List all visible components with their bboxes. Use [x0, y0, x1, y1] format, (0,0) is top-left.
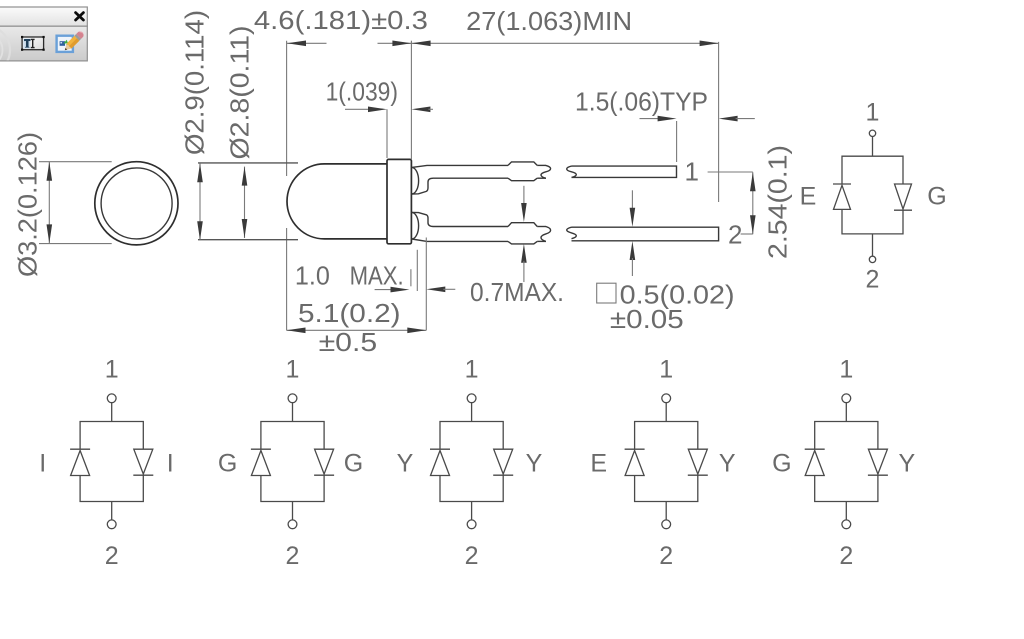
svg-text:1: 1 — [105, 356, 119, 384]
dimension Ø3.2 extension line bottom — [39, 243, 112, 245]
svg-text:1: 1 — [866, 99, 880, 127]
value label 2.54(0.1) — [763, 145, 793, 259]
bi-color LED symbol U5 body box — [635, 422, 698, 502]
extension line lead bend (vertical) — [416, 250, 418, 291]
U3 right diode (G) cathode-down — [314, 449, 334, 475]
U3 pin 2 number label — [286, 542, 300, 570]
U1 colour label G (right) — [927, 183, 946, 211]
U5 pin 1 number label — [659, 356, 673, 384]
svg-text:2: 2 — [659, 542, 673, 570]
U2 pin 2 terminal circle and wire — [107, 502, 116, 529]
U5 colour label E (left) — [590, 450, 607, 478]
dimension Ø3.2 extension line top — [39, 161, 112, 163]
value label 4.6(.181)±0.3 — [254, 5, 428, 35]
U1 pin 2 terminal circle and wire — [869, 234, 875, 263]
svg-text:2: 2 — [286, 542, 300, 570]
U5 left diode (E) anode-up — [625, 449, 645, 475]
dimension 1.5 TYP arrows — [640, 116, 755, 122]
U1 colour label E (left) — [800, 183, 817, 211]
bi-color LED symbol U4 body box — [440, 422, 503, 502]
svg-text:2: 2 — [465, 542, 479, 570]
svg-text:Y: Y — [899, 450, 916, 478]
svg-text:Ø2.9(0.114): Ø2.9(0.114) — [180, 10, 210, 155]
svg-text:27(1.063)MIN: 27(1.063)MIN — [466, 6, 632, 36]
svg-text:±0.5: ±0.5 — [319, 327, 378, 357]
dimension 0.5 square lead arrows — [630, 190, 636, 276]
svg-text:I: I — [39, 450, 46, 478]
value label Ø2.9(0.114) — [180, 10, 210, 155]
U1 right diode (G) cathode-down — [894, 184, 912, 210]
wire lead1 near package top edge — [412, 165, 508, 167]
dimension 4.6 arrow line — [287, 41, 411, 47]
U6 pin 1 number label — [839, 356, 853, 384]
extension line lead2 end (vertical) — [718, 42, 720, 202]
value label Ø3.2(0.126) — [13, 132, 43, 277]
svg-text:G: G — [772, 450, 791, 478]
svg-text:G: G — [927, 183, 946, 211]
LED front view outer circle (package barrel Ø3.2) — [95, 162, 178, 245]
lead seat bump pin2 — [412, 212, 419, 239]
value label ±0.5 — [319, 327, 378, 357]
svg-text:1: 1 — [839, 356, 853, 384]
dimension 1(.039) arrows — [345, 107, 433, 113]
U4 right diode (Y) cathode-down — [493, 449, 513, 475]
U6 right diode (Y) cathode-down — [868, 449, 888, 475]
extension line lead1 end (vertical) — [676, 121, 678, 162]
U5 colour label Y (right) — [719, 450, 736, 478]
U2 pin 1 number label — [105, 356, 119, 384]
U2 pin 1 terminal circle and wire — [107, 394, 116, 422]
dimension 27 arrow line — [412, 41, 719, 47]
value label 1(.039) — [326, 76, 398, 106]
bi-color LED symbol U3 body box — [261, 422, 324, 502]
U2 colour label I (right) — [167, 450, 174, 478]
svg-text:2: 2 — [839, 542, 853, 570]
U6 colour label G (left) — [772, 450, 791, 478]
U3 pin 2 terminal circle and wire — [288, 502, 297, 529]
svg-text:1.5(.06)TYP: 1.5(.06)TYP — [575, 87, 708, 117]
U5 pin 1 terminal circle and wire — [662, 394, 671, 422]
value label Ø2.8(0.11) — [225, 26, 255, 160]
svg-text:1: 1 — [659, 356, 673, 384]
svg-text:1: 1 — [465, 356, 479, 384]
U1 left diode (E) anode-up — [833, 184, 851, 209]
lead seat bump pin1 — [412, 167, 419, 194]
U2 left diode (I) anode-up — [70, 449, 90, 475]
U2 pin 2 number label — [105, 542, 119, 570]
node pin 2 label — [728, 220, 742, 250]
value label 5.1(0.2) — [298, 298, 401, 328]
U6 pin 2 terminal circle and wire — [842, 502, 851, 529]
U5 right diode (Y) cathode-down — [688, 449, 708, 475]
U6 left diode (G) anode-up — [805, 449, 825, 475]
U6 pin 1 terminal circle and wire — [842, 394, 851, 422]
svg-text:1: 1 — [286, 356, 300, 384]
svg-text:1(.039): 1(.039) — [326, 76, 398, 106]
lead2 crimp — [508, 223, 537, 244]
svg-text:E: E — [800, 183, 817, 211]
svg-text:0.7MAX.: 0.7MAX. — [470, 277, 564, 307]
U5 pin 2 number label — [659, 542, 673, 570]
U4 colour label Y (left) — [397, 450, 414, 478]
dimension 5.1 arrow line — [287, 328, 427, 334]
svg-text:Y: Y — [719, 450, 736, 478]
svg-text:G: G — [344, 450, 363, 478]
lead1 crimp — [508, 162, 537, 181]
svg-text:5.1(0.2): 5.1(0.2) — [298, 298, 401, 328]
tick after 1.0 MAX label — [410, 269, 412, 286]
U6 colour label Y (right) — [899, 450, 916, 478]
dimension 1.0 MAX arrow — [375, 287, 410, 293]
value label square 0.5(0.02) — [597, 279, 735, 309]
svg-text:I: I — [167, 450, 174, 478]
extension line dome bottom — [198, 239, 298, 241]
svg-text:2: 2 — [728, 220, 742, 250]
LED side view flange — [387, 159, 411, 243]
bi-color LED symbol U6 body box — [815, 422, 878, 502]
U5 pin 2 terminal circle and wire — [662, 502, 671, 529]
U3 pin 1 number label — [286, 356, 300, 384]
U3 left diode (G) anode-up — [251, 449, 271, 475]
svg-text:Ø3.2(0.126): Ø3.2(0.126) — [13, 132, 43, 277]
dimension 0.7MAX crimp arrows — [521, 186, 527, 282]
LED side view epoxy dome — [287, 164, 387, 239]
dimension Ø3.2 arrow line — [47, 162, 53, 244]
value label 27(1.063)MIN — [466, 6, 632, 36]
dimension 2.54 tick pin2 — [741, 233, 753, 235]
extension line dome top — [198, 162, 298, 164]
svg-text:±0.05: ±0.05 — [610, 304, 684, 334]
extension line lead bend outer (vertical) — [425, 238, 427, 331]
bi-color LED symbol U1 body box — [842, 156, 903, 234]
U6 pin 2 number label — [839, 542, 853, 570]
U2 colour label I (left) — [39, 450, 46, 478]
svg-text:MAX.: MAX. — [350, 260, 404, 290]
floating CAD toolbar window fragment (top-left) — [0, 7, 87, 74]
svg-text:4.6(.181)±0.3: 4.6(.181)±0.3 — [254, 5, 428, 35]
U4 colour label Y (right) — [526, 450, 543, 478]
value label 0.7MAX. — [470, 277, 564, 307]
wire lead1 to break — [537, 165, 550, 178]
value label 1.5(.06)TYP — [575, 87, 708, 117]
svg-text:2: 2 — [866, 266, 880, 294]
wire lead2 near package bottom edge — [412, 239, 508, 241]
U4 pin 1 number label — [465, 356, 479, 384]
extension line flange front (vertical) — [386, 109, 388, 158]
svg-text:1.0: 1.0 — [295, 260, 330, 290]
svg-text:Y: Y — [397, 450, 414, 478]
wire lead2 to break — [537, 227, 550, 242]
svg-text:1: 1 — [685, 157, 699, 187]
dimension 0.7 MAX arrow — [426, 287, 455, 293]
LED front view inner circle (dome) — [101, 168, 172, 239]
svg-text:E: E — [590, 450, 607, 478]
U4 pin 2 number label — [465, 542, 479, 570]
U1 pin 1 terminal circle and wire — [869, 130, 875, 156]
dimension 2.54 arrow line — [750, 172, 756, 234]
node pin 1 label — [685, 157, 699, 187]
extension line flange back (vertical) — [410, 41, 412, 159]
svg-text:2.54(0.1): 2.54(0.1) — [763, 145, 793, 259]
extension line dome front (vertical) — [286, 41, 288, 331]
U3 colour label G (left) — [218, 450, 237, 478]
svg-text:Y: Y — [526, 450, 543, 478]
wire lead2 near package top edge — [412, 212, 508, 226]
svg-text:Ø2.8(0.11): Ø2.8(0.11) — [225, 26, 255, 160]
wire lead1 outer segment (after break) — [567, 166, 677, 177]
wire lead1 near package bottom edge — [412, 178, 508, 194]
U2 right diode (I) cathode-down — [133, 449, 153, 475]
U4 left diode (Y) anode-up — [430, 449, 450, 475]
svg-text:2: 2 — [105, 542, 119, 570]
U3 pin 1 terminal circle and wire — [288, 394, 297, 422]
value label 1.0 MAX. — [295, 260, 404, 290]
dimension Ø2.9 arrow line — [197, 163, 203, 240]
svg-text:G: G — [218, 450, 237, 478]
U1 pin 1 number label — [866, 99, 880, 127]
bi-color LED symbol U2 body box — [80, 422, 143, 502]
U3 colour label G (right) — [344, 450, 363, 478]
dimension Ø2.8 arrow line — [242, 167, 248, 238]
U4 pin 2 terminal circle and wire — [467, 502, 476, 529]
wire lead2 outer segment (after break) — [567, 227, 719, 241]
U4 pin 1 terminal circle and wire — [467, 394, 476, 422]
U1 pin 2 number label — [866, 266, 880, 294]
value label ±0.05 — [610, 304, 684, 334]
dimension 2.54 tick pin1 — [708, 171, 753, 173]
